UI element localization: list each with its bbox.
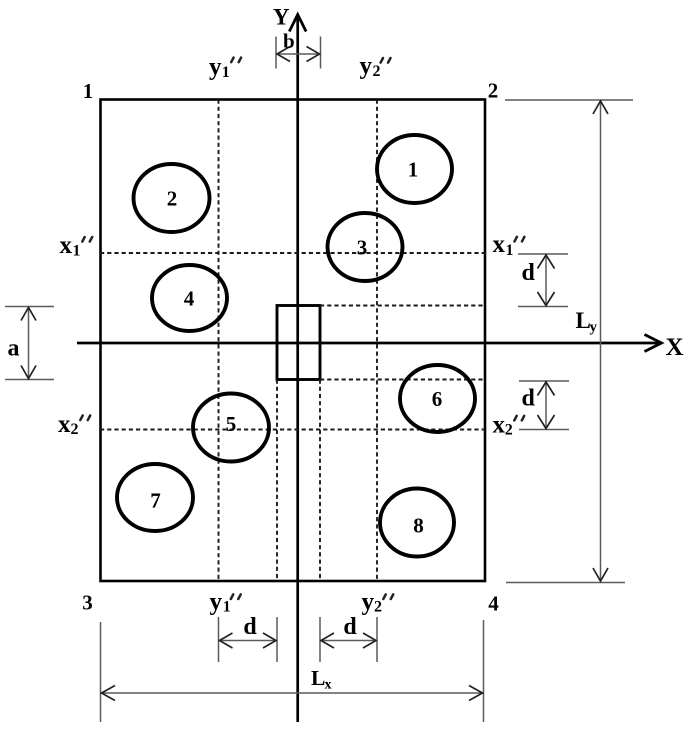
svg-text:1: 1 (506, 242, 514, 259)
hole circle 1 (377, 135, 452, 203)
svg-text:x: x (58, 411, 71, 438)
dimension d right-bottom ticks (519, 380, 569, 382)
svg-text:d: d (343, 614, 357, 640)
svg-text:2: 2 (505, 421, 513, 438)
svg-text:2: 2 (373, 63, 381, 80)
hole circle 7 (117, 464, 193, 531)
Y axis (296, 15, 299, 722)
dashed datum line x1'' horizontal (100, 252, 485, 254)
label y2'' top (360, 53, 391, 81)
X axis arrowhead (645, 335, 662, 352)
label y1'' bottom (210, 588, 241, 615)
hole circle 5 (193, 394, 269, 462)
dimension a arrow line (28, 307, 30, 380)
dimension d bottom-right arrow line (320, 640, 377, 642)
svg-text:y: y (209, 54, 222, 81)
svg-text:2: 2 (374, 599, 382, 616)
dimension b ticks (275, 37, 277, 69)
svg-text:x: x (493, 411, 506, 438)
svg-text:y: y (210, 588, 223, 615)
svg-text:x: x (493, 231, 506, 258)
dashed line from small rect bottom edge to right (320, 379, 485, 381)
dimension d bottom-right ticks (319, 617, 321, 662)
dimension Ly arrow line (600, 100, 602, 583)
svg-text:1: 1 (83, 79, 94, 103)
Y axis arrowhead (289, 15, 306, 32)
svg-text:L: L (311, 666, 325, 690)
dashed datum line y2'' vertical (376, 100, 378, 582)
dimension d right-top arrow line (545, 254, 547, 307)
svg-text:7: 7 (150, 489, 161, 513)
svg-text:X: X (665, 334, 683, 361)
svg-text:d: d (522, 260, 536, 286)
label x2'' left (58, 411, 90, 438)
svg-text:2: 2 (71, 421, 79, 438)
label y1'' top (209, 54, 241, 81)
svg-text:y: y (360, 53, 373, 80)
dimension Lx arrow line (101, 692, 484, 694)
dimension d right-bottom arrow line (545, 381, 547, 430)
svg-text:4: 4 (184, 287, 195, 311)
dashed line from small rect top edge to right (320, 305, 485, 307)
dimension d right-top ticks (518, 253, 568, 255)
dashed line down from small rect right corner (319, 380, 321, 582)
dimension a arrowheads (21, 308, 36, 321)
svg-text:6: 6 (432, 387, 443, 411)
label x1'' left (60, 232, 93, 260)
svg-text:5: 5 (226, 412, 237, 436)
svg-text:y: y (362, 588, 375, 615)
svg-text:4: 4 (488, 592, 499, 616)
dimension d bottom-left ticks (218, 617, 220, 662)
dimension d bottom-left arrow line (219, 640, 278, 642)
dimension b arrow line (276, 53, 321, 55)
dimension d bottom-left arrowheads (220, 633, 233, 648)
dashed datum line y1'' vertical (218, 100, 220, 582)
svg-text:8: 8 (413, 514, 424, 538)
svg-text:y: y (590, 320, 598, 336)
hole circle 4 (152, 265, 227, 331)
dimension d bottom-right arrowheads (321, 633, 334, 648)
label x1'' right (493, 231, 525, 259)
dimension d right-top arrowheads (538, 255, 555, 269)
dimension b arrowheads (277, 47, 290, 62)
dimension Ly arrowheads (593, 101, 608, 114)
svg-text:d: d (522, 386, 536, 412)
plate outline rectangle (101, 100, 486, 582)
svg-text:1: 1 (408, 158, 419, 182)
svg-text:3: 3 (82, 591, 93, 615)
hole circle 6 (400, 365, 475, 432)
hole circle 2 (134, 164, 210, 232)
svg-text:1: 1 (73, 243, 81, 260)
label y2'' bottom (362, 588, 394, 615)
dashed line down from small rect left corner (276, 380, 278, 582)
svg-text:d: d (243, 614, 257, 640)
X axis (77, 342, 658, 345)
hole circle 3 (328, 213, 403, 281)
dimension Lx label (311, 666, 332, 693)
dashed datum line x2'' horizontal (100, 429, 485, 431)
dimension Lx ticks (100, 622, 102, 722)
dimension Lx arrowheads (102, 686, 116, 701)
svg-text:Y: Y (273, 5, 290, 30)
dimension Ly label (576, 308, 598, 336)
svg-text:2: 2 (488, 79, 499, 103)
svg-text:1: 1 (222, 64, 230, 81)
svg-text:3: 3 (357, 236, 368, 260)
svg-text:x: x (325, 678, 332, 693)
small rectangle at origin (277, 306, 320, 380)
svg-text:a: a (8, 336, 20, 362)
dimension a ticks (5, 306, 54, 308)
svg-text:2: 2 (167, 187, 178, 211)
svg-text:b: b (283, 29, 295, 53)
svg-text:x: x (60, 232, 73, 259)
hole circle 8 (380, 489, 454, 557)
dimension Ly ticks (505, 99, 633, 101)
dimension d right-bottom arrowheads (538, 382, 555, 396)
svg-text:1: 1 (223, 599, 231, 616)
label x2'' right (493, 411, 525, 438)
